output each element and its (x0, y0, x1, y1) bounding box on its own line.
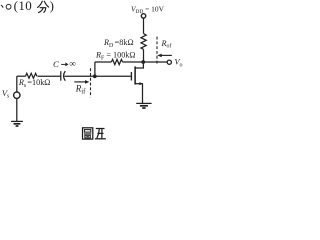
wire Rs to capacitor (38, 75, 61, 77)
capacitor C curved plate (64, 71, 66, 81)
transistor Q1 gate bar (130, 72, 132, 81)
node gate junction (93, 74, 97, 78)
capacitor C straight plate (60, 71, 62, 81)
resistor RD 8k (vertical zigzag) (141, 34, 146, 50)
label fen character (38, 1, 49, 12)
resistor RF 100k (horizontal zigzag) (111, 59, 122, 64)
node VDD terminal (141, 14, 145, 18)
transistor Q1 source lead with arrow (135, 83, 143, 85)
arrow Rif (pointing right) (74, 81, 87, 83)
ground (transistor source) (136, 102, 151, 104)
node Vo terminal (167, 60, 171, 64)
source Vs circle (14, 92, 20, 98)
wire gate (65, 75, 131, 77)
wire feedback down-connector (94, 62, 96, 76)
wire RD to drain node (143, 49, 145, 62)
transistor Q1 channel bar (134, 66, 136, 84)
wire feedback to output (123, 61, 168, 63)
label figure-five: character wu (95, 129, 106, 139)
wire Vs up lead (16, 76, 18, 92)
arrow Rof (pointing left) (161, 54, 172, 56)
top-left punctuation tick (1, 5, 3, 8)
wire VDD to RD (143, 18, 145, 33)
svg-text:): ) (50, 0, 54, 13)
resistor Rs 10k (horizontal zigzag) (26, 73, 37, 78)
svg-text:∞: ∞ (69, 59, 75, 69)
wire source to ground (142, 84, 144, 104)
dashed measurement line Rif (90, 68, 92, 97)
node drain junction (141, 60, 145, 64)
transistor Q1 drain lead (135, 62, 143, 68)
wire feedback top left segment (95, 61, 111, 63)
ideographic full stop (6, 4, 11, 9)
svg-text:(10: (10 (14, 0, 33, 13)
dashed measurement line Rof (156, 37, 158, 65)
svg-text:C: C (53, 59, 59, 69)
ground (Vs) (11, 120, 23, 122)
wire Vs to Rs (17, 75, 26, 77)
label figure-five: character tu (83, 128, 93, 139)
wire Vs down lead (16, 99, 18, 122)
